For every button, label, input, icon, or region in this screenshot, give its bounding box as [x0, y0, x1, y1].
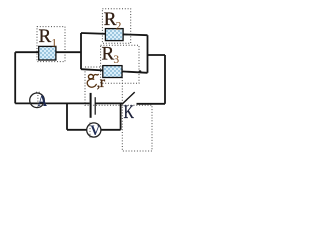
svg-text:3: 3	[113, 54, 119, 66]
wire right vertical	[147, 35, 149, 73]
junction node on R3 wire	[139, 70, 142, 73]
svg-text:K: K	[124, 103, 135, 123]
wire R3 branch	[81, 69, 148, 73]
svg-text:2: 2	[116, 21, 122, 33]
selection edge ammeter	[36, 92, 40, 108]
wire bottom main	[15, 102, 89, 104]
selection box battery	[85, 67, 122, 105]
wire mid vertical	[80, 33, 82, 69]
wire far right vertical	[164, 55, 166, 104]
svg-text:V: V	[90, 123, 100, 139]
selection box R3	[101, 45, 139, 83]
wire jumper	[148, 54, 166, 56]
voltmeter V1 circle	[87, 123, 101, 137]
wire voltmeter horizontal	[67, 129, 121, 131]
svg-text:R: R	[39, 26, 52, 47]
battery short plate	[94, 97, 96, 115]
resistor R3 body	[103, 66, 122, 78]
wire left vertical	[14, 52, 16, 103]
battery long plate	[90, 93, 92, 118]
wire voltmeter left vertical	[66, 103, 68, 129]
selection box K	[122, 105, 152, 151]
svg-text:A: A	[38, 93, 48, 110]
selection edge voltmeter	[89, 123, 91, 138]
resistor R1 body	[39, 46, 56, 60]
wire battery to switch	[95, 102, 122, 104]
wire bottom right	[137, 103, 166, 105]
svg-text:1: 1	[51, 37, 57, 49]
label EMF script-E	[87, 74, 98, 87]
wire R2 branch	[81, 33, 148, 35]
ammeter A1 circle	[30, 93, 45, 108]
wire voltmeter right vertical	[120, 104, 122, 130]
selection box R2	[102, 9, 130, 44]
svg-text:r: r	[100, 74, 106, 91]
switch K blade	[122, 92, 135, 104]
resistor R2 body	[105, 29, 123, 41]
selection box R1	[37, 27, 65, 62]
wire R1 branch	[15, 51, 81, 53]
